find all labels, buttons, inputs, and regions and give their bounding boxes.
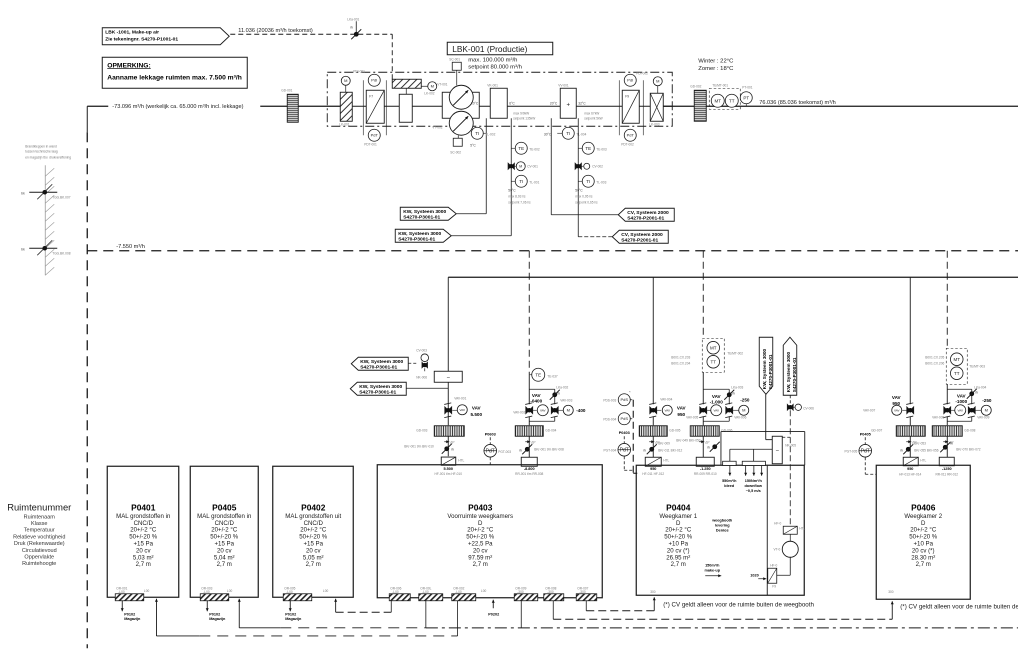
damper LKa-004 xyxy=(947,388,972,390)
damper LKa-002 xyxy=(529,388,555,390)
svg-text:M: M xyxy=(742,408,745,413)
svg-text:VAV: VAV xyxy=(892,395,902,400)
svg-text:CV-001: CV-001 xyxy=(527,164,538,168)
svg-text:TE: TE xyxy=(535,372,541,377)
booth dist box 2 xyxy=(742,461,765,465)
svg-text:Magazijn: Magazijn xyxy=(209,617,226,621)
svg-text:L00: L00 xyxy=(227,589,233,593)
outlet damper LK-003 xyxy=(650,93,663,121)
svg-text:HTL: HTL xyxy=(799,526,805,530)
svg-text:S4270-P3001-01: S4270-P3001-01 xyxy=(360,364,397,370)
svg-text:rk: rk xyxy=(557,391,560,395)
svg-text:RR-001 t/m RR-008: RR-001 t/m RR-008 xyxy=(515,472,543,476)
svg-text:TL-002: TL-002 xyxy=(485,132,495,136)
svg-text:BKr-053: BKr-053 xyxy=(914,441,926,445)
duct cooler NK-006 xyxy=(434,371,462,382)
svg-text:VK-001: VK-001 xyxy=(487,83,498,87)
svg-text:TI: TI xyxy=(519,179,523,184)
damper motor VAV-009 xyxy=(968,407,975,414)
note box OPMERKING xyxy=(102,57,247,88)
damper actuator M LK-002 xyxy=(428,82,437,91)
inlet damper LK-001 xyxy=(340,92,352,121)
svg-text:BKr-009: BKr-009 xyxy=(658,441,670,445)
svg-text:PDI-001: PDI-001 xyxy=(353,69,365,73)
svg-text:(*) CV geldt alleen voor de ru: (*) CV geldt alleen voor de ruimte buite… xyxy=(900,603,1018,610)
P0406 extract pipe xyxy=(946,384,948,404)
svg-text:rk: rk xyxy=(643,448,646,452)
svg-text:PdT: PdT xyxy=(861,449,870,455)
smoke damper BKr P0406 supply xyxy=(906,447,911,452)
svg-text:TE-002: TE-002 xyxy=(529,147,540,151)
svg-text:VV-001: VV-001 xyxy=(558,83,569,87)
svg-text:KW, Systeem 3000: KW, Systeem 3000 xyxy=(359,384,402,390)
svg-text:Denios: Denios xyxy=(716,528,729,532)
svg-text:P0403: P0403 xyxy=(468,502,493,512)
svg-text:PDS-003: PDS-003 xyxy=(603,398,616,402)
svg-text:S4270-P3001-01: S4270-P3001-01 xyxy=(403,214,440,220)
svg-text:PdS: PdS xyxy=(620,397,628,402)
svg-text:GD-004: GD-004 xyxy=(545,428,556,432)
svg-text:150Nm³/h: 150Nm³/h xyxy=(745,479,763,483)
svg-text:Zomer : 18°C: Zomer : 18°C xyxy=(698,66,734,72)
room P0405 xyxy=(190,466,258,597)
riser duct (dashed vertical) xyxy=(86,106,88,132)
room P0403 xyxy=(377,465,602,598)
svg-text:-7.550 m³/h: -7.550 m³/h xyxy=(116,244,145,250)
temp sensor TE-037 xyxy=(532,368,545,381)
flag CV systeem 2000 a xyxy=(618,208,674,221)
svg-text:LK-001: LK-001 xyxy=(339,122,350,126)
svg-text:PDI-002: PDI-002 xyxy=(636,71,648,75)
svg-text:TI: TI xyxy=(475,131,479,136)
svg-text:-73.096 m³/h (werkelijk ca. 65: -73.096 m³/h (werkelijk ca. 65.000 m³/h … xyxy=(112,104,243,110)
filter F9 xyxy=(622,90,639,123)
P0404 extract pipe xyxy=(702,372,704,404)
svg-text:Druk (Rekenwaarde): Druk (Rekenwaarde) xyxy=(14,541,65,547)
svg-text:PdS: PdS xyxy=(620,416,628,421)
KW connection lines xyxy=(456,213,486,215)
svg-text:P0102: P0102 xyxy=(124,612,135,616)
svg-text:5°C: 5°C xyxy=(470,143,476,147)
banner KW systeem 3000 vertical b xyxy=(783,337,797,395)
svg-text:VAV: VAV xyxy=(677,405,687,410)
svg-text:ΔP: ΔP xyxy=(450,440,454,444)
svg-text:setpoint 80.000 m³/h: setpoint 80.000 m³/h xyxy=(468,64,522,70)
svg-text:max 8,93 l/s: max 8,93 l/s xyxy=(508,194,526,198)
room P0401 xyxy=(107,466,179,597)
svg-text:M: M xyxy=(567,408,570,413)
duct out of AHU xyxy=(663,105,694,107)
svg-text:KW, Systeem 3000: KW, Systeem 3000 xyxy=(786,351,791,392)
svg-text:20°C: 20°C xyxy=(550,101,558,105)
svg-text:HTL: HTL xyxy=(920,458,926,462)
svg-text:300: 300 xyxy=(888,590,894,594)
temp sensor TI TL-004 xyxy=(557,132,562,134)
svg-text:VAV-002: VAV-002 xyxy=(513,410,525,414)
svg-text:HF-011 HF-012: HF-011 HF-012 xyxy=(642,472,664,476)
svg-text:PT-001: PT-001 xyxy=(742,85,753,89)
sensor group TE/MT-003 xyxy=(946,348,967,384)
svg-text:TL-003: TL-003 xyxy=(596,180,606,184)
svg-text:P0405: P0405 xyxy=(212,502,237,512)
temp sensor TI TL-003 xyxy=(578,180,582,182)
silencer GD-001 xyxy=(287,94,298,122)
filter F7 xyxy=(366,90,384,123)
svg-text:LKa-002: LKa-002 xyxy=(556,385,568,389)
svg-text:30°C: 30°C xyxy=(544,132,552,136)
svg-text:HF-001 t/m HF-010: HF-001 t/m HF-010 xyxy=(435,472,463,476)
svg-text:S4270-P3001-01: S4270-P3001-01 xyxy=(792,357,797,392)
svg-text:setpoint 0,65 l/s: setpoint 0,65 l/s xyxy=(575,200,598,204)
svg-text:rk: rk xyxy=(732,391,735,395)
silencer GD-002 xyxy=(694,90,706,121)
svg-text:KW, Systeem 3000: KW, Systeem 3000 xyxy=(762,348,767,389)
svg-text:2,7 m: 2,7 m xyxy=(136,561,151,568)
svg-text:TL-001: TL-001 xyxy=(529,180,539,184)
KW pipe left xyxy=(485,118,487,214)
return air bus (dashed) xyxy=(87,250,1018,252)
svg-text:CV-006: CV-006 xyxy=(803,406,814,410)
sensor group TE/MT-001 xyxy=(709,88,740,109)
svg-text:max. 100.000 m³/h: max. 100.000 m³/h xyxy=(468,57,517,63)
P0406 extract box xyxy=(939,457,954,466)
svg-text:VAV-007: VAV-007 xyxy=(863,408,875,412)
flag KW systeem 3000 d xyxy=(350,382,406,395)
svg-text:L00: L00 xyxy=(144,589,150,593)
svg-text:TE/MT-001: TE/MT-001 xyxy=(712,83,728,87)
svg-text:LK-002: LK-002 xyxy=(424,91,435,95)
svg-text:B001.CX.206: B001.CX.206 xyxy=(925,361,944,365)
svg-text:max 9/9kW: max 9/9kW xyxy=(513,111,529,115)
svg-text:MT: MT xyxy=(710,345,717,350)
booth dist box 1 xyxy=(723,461,737,465)
svg-text:150m³/h: 150m³/h xyxy=(705,563,720,567)
silencer GD-006 xyxy=(690,426,719,437)
svg-text:GD-007: GD-007 xyxy=(871,428,882,432)
svg-text:TT: TT xyxy=(729,98,735,103)
wall hatch xyxy=(44,165,46,275)
valve CV-006 xyxy=(789,395,791,403)
svg-text:PGT-003: PGT-003 xyxy=(498,450,511,454)
booth supply header xyxy=(730,448,772,450)
make-up air drop xyxy=(391,34,393,79)
supply trunk (solid) xyxy=(448,276,1018,278)
supply duct to right xyxy=(706,105,1018,107)
svg-text:Relatieve vochtigheid: Relatieve vochtigheid xyxy=(13,534,65,540)
svg-text:CV-003: CV-003 xyxy=(416,348,427,352)
svg-text:CV-002: CV-002 xyxy=(592,164,603,168)
svg-text:P0404: P0404 xyxy=(666,502,691,512)
svg-text:VAV-008: VAV-008 xyxy=(932,415,944,419)
svg-text:F7: F7 xyxy=(369,94,373,98)
svg-text:Zie tekeningnr. S4270-P1001-01: Zie tekeningnr. S4270-P1001-01 xyxy=(105,36,178,42)
svg-text:TE/MT-002: TE/MT-002 xyxy=(727,351,743,355)
smoke damper BKr P0406 extract xyxy=(943,445,948,450)
control valve CV-002 xyxy=(575,163,581,169)
svg-text:20°C: 20°C xyxy=(471,101,479,105)
svg-text:S4270-P2001-01: S4270-P2001-01 xyxy=(621,237,658,243)
svg-text:RR-009 RR-010: RR-009 RR-010 xyxy=(694,472,717,476)
svg-text:HTL: HTL xyxy=(663,458,669,462)
svg-text:levering: levering xyxy=(715,523,730,527)
damper actuator M LK-001 xyxy=(341,76,350,85)
room P0406 xyxy=(876,465,970,599)
svg-text:GD-005: GD-005 xyxy=(669,428,680,432)
svg-text:KW, Systeem 3000: KW, Systeem 3000 xyxy=(403,209,446,215)
svg-text:setpoint 7,06 l/s: setpoint 7,06 l/s xyxy=(508,200,531,204)
svg-text:VAV: VAV xyxy=(957,408,963,412)
P0406 extract pipe lower xyxy=(946,436,948,457)
flag KW systeem 3000 a xyxy=(400,207,456,220)
filter F7 PdT sensor xyxy=(368,129,380,141)
svg-text:P0405: P0405 xyxy=(860,432,871,436)
svg-text:BKr-001 t/m BKr-010: BKr-001 t/m BKr-010 xyxy=(404,444,434,448)
temp sensor TI TL-001 xyxy=(511,180,515,182)
damper motor VAV-006 xyxy=(726,407,733,414)
svg-text:P0202: P0202 xyxy=(488,612,499,616)
svg-text:TI: TI xyxy=(586,179,590,184)
svg-text:M: M xyxy=(985,408,988,413)
svg-text:NK-005: NK-005 xyxy=(785,443,796,447)
duct cooler NK-005 xyxy=(772,436,782,464)
svg-text:PdT: PdT xyxy=(371,133,379,138)
svg-text:VAV: VAV xyxy=(712,394,722,399)
booth heater HF-0 xyxy=(783,526,797,534)
svg-text:VAV: VAV xyxy=(894,408,900,412)
svg-text:M: M xyxy=(344,78,347,83)
fan section box xyxy=(442,92,479,118)
svg-text:P0102: P0102 xyxy=(209,612,220,616)
svg-text:Winter : 22°C: Winter : 22°C xyxy=(698,58,734,64)
svg-text:LK-003: LK-003 xyxy=(649,122,660,126)
svg-text:setpoint 135kW: setpoint 135kW xyxy=(513,116,535,120)
svg-text:BKr-001 t/m BKr-008: BKr-001 t/m BKr-008 xyxy=(534,447,564,451)
svg-text:Klasse: Klasse xyxy=(31,521,48,527)
arrow to P0102 b xyxy=(206,601,208,612)
svg-text:VAV: VAV xyxy=(957,393,967,398)
svg-text:Circulatievoud: Circulatievoud xyxy=(22,548,57,554)
filter F9 PdT sensor xyxy=(624,129,636,141)
svg-text:P0402: P0402 xyxy=(301,502,326,512)
svg-text:KW, Systeem 3000: KW, Systeem 3000 xyxy=(360,359,403,365)
silencer GD-003 xyxy=(434,426,464,437)
fire damper bk TGG.BK.007 xyxy=(29,191,57,193)
svg-text:BKr-070 BKr-072: BKr-070 BKr-072 xyxy=(956,447,980,451)
svg-text:VAV: VAV xyxy=(540,408,546,412)
svg-text:GD-008: GD-008 xyxy=(964,428,975,432)
svg-text:P0401: P0401 xyxy=(131,502,156,512)
P0403 supply pipe xyxy=(447,382,449,425)
temp sensor TE TE-002 xyxy=(511,147,515,149)
svg-text:950: 950 xyxy=(650,467,656,471)
svg-text:L00: L00 xyxy=(323,589,329,593)
svg-text:GD-001: GD-001 xyxy=(281,88,292,92)
svg-text:Magazijn: Magazijn xyxy=(124,617,141,621)
filter F7 sensing frame xyxy=(362,80,364,135)
svg-text:(*) CV geldt alleen voor de ru: (*) CV geldt alleen voor de ruimte buite… xyxy=(663,601,814,608)
svg-text:P0406: P0406 xyxy=(911,502,936,512)
booth fan VT-0 xyxy=(789,534,791,541)
svg-text:TGG.BK.007: TGG.BK.007 xyxy=(52,195,70,199)
P0404 supply box HTL xyxy=(645,457,661,466)
P0406 extract drop (dashed) xyxy=(946,251,948,349)
transfer line P0402-OR006 xyxy=(336,611,392,613)
svg-text:VT-002: VT-002 xyxy=(432,125,443,129)
flag KW systeem 3000 c xyxy=(351,357,408,370)
supply fan VT-002 xyxy=(449,111,473,135)
CV connection lines xyxy=(551,214,619,216)
svg-text:en magazijn tbv. drukvereffeni: en magazijn tbv. drukvereffening xyxy=(25,155,71,159)
svg-text:1020: 1020 xyxy=(750,573,758,577)
weegbooth wall xyxy=(766,465,768,595)
fan control SC-002 xyxy=(457,135,459,138)
mixing damper LK-002 xyxy=(392,79,421,88)
svg-text:PdT: PdT xyxy=(620,448,629,454)
AHU dash-dot enclosure xyxy=(327,72,672,126)
svg-text:HF-013 HF-014: HF-013 HF-014 xyxy=(899,472,921,476)
section rect xyxy=(399,94,412,122)
svg-text:bk: bk xyxy=(21,191,25,195)
svg-text:HF-0: HF-0 xyxy=(774,521,781,525)
svg-text:-400: -400 xyxy=(576,408,586,413)
P0406 supply drop xyxy=(909,277,911,404)
booth fan line xyxy=(789,557,791,575)
svg-text:bleed: bleed xyxy=(724,484,735,488)
silencer GD-005 xyxy=(639,426,667,437)
svg-text:max 67kW: max 67kW xyxy=(584,111,599,115)
flag KW systeem 3000 b xyxy=(395,229,451,242)
svg-text:550m³/h: 550m³/h xyxy=(722,479,737,483)
pds drop line xyxy=(632,400,634,474)
svg-text:LBK-001 (Productie): LBK-001 (Productie) xyxy=(452,44,527,54)
svg-text:PT: PT xyxy=(743,95,749,100)
svg-text:TE-037: TE-037 xyxy=(547,374,558,378)
svg-text:MT: MT xyxy=(954,357,961,362)
banner KW systeem 3000 vertical a xyxy=(759,337,773,394)
svg-text:GD-002: GD-002 xyxy=(690,84,701,88)
flag CV systeem 2000 b xyxy=(612,230,668,243)
svg-text:rk: rk xyxy=(950,441,953,445)
svg-text:OPMERKING:: OPMERKING: xyxy=(107,62,150,69)
svg-text:-0400: -0400 xyxy=(530,398,542,403)
room P0404 xyxy=(636,465,804,595)
svg-text:PDT-002: PDT-002 xyxy=(621,142,634,146)
svg-text:BKr-055 BKr-056: BKr-055 BKr-056 xyxy=(914,448,938,452)
silencer GD-004 xyxy=(515,426,543,437)
make-up air dashed duct xyxy=(230,33,392,35)
svg-text:rk: rk xyxy=(350,25,353,29)
svg-text:S4270-P2001-01: S4270-P2001-01 xyxy=(627,215,664,221)
svg-text:−: − xyxy=(446,375,450,381)
svg-text:bk: bk xyxy=(21,247,25,251)
svg-text:TE-003: TE-003 xyxy=(596,147,607,151)
svg-text:50°C: 50°C xyxy=(508,188,516,192)
P0403 extract drop (dashed) xyxy=(528,251,530,375)
svg-text:TGG.BK.008: TGG.BK.008 xyxy=(52,251,70,255)
svg-text:weegbooth: weegbooth xyxy=(711,518,733,522)
AHU title box LBK-001 xyxy=(447,42,553,55)
P0403 extract box xyxy=(521,457,537,466)
svg-text:VAV-006: VAV-006 xyxy=(734,415,746,419)
svg-text:VAV-004: VAV-004 xyxy=(660,397,672,401)
svg-text:rk: rk xyxy=(900,448,903,452)
svg-text:Aanname lekkage ruimten max. 7: Aanname lekkage ruimten max. 7.500 m³/h xyxy=(107,74,242,81)
svg-text:32°C: 32°C xyxy=(578,101,586,105)
svg-text:KW, Systeem 3000: KW, Systeem 3000 xyxy=(398,231,441,237)
CV pipe right with valve xyxy=(577,118,579,237)
svg-text:~0,5 m/s: ~0,5 m/s xyxy=(746,489,761,493)
filter F7 dP sensor PDI-001 xyxy=(368,74,380,86)
supply fan VT-001 xyxy=(449,85,473,109)
P0404 extract drop (dashed) xyxy=(702,251,704,339)
flag: LBK-1001 make-up air reference xyxy=(102,28,229,45)
svg-text:LBK -1001, Make-up air: LBK -1001, Make-up air xyxy=(105,29,159,35)
damper motor VAV-003 xyxy=(551,407,558,414)
transfer line P0401-OR002 xyxy=(156,635,199,637)
svg-text:6°C: 6°C xyxy=(509,101,515,105)
svg-text:VT-0: VT-0 xyxy=(774,547,781,551)
transfer line OR007-P0404 xyxy=(586,610,654,612)
svg-text:Ruimtehoogte: Ruimtehoogte xyxy=(22,561,56,567)
svg-text:VAV-001: VAV-001 xyxy=(454,396,466,400)
svg-text:B001.CX.204: B001.CX.204 xyxy=(671,361,690,365)
svg-text:P0603: P0603 xyxy=(485,432,496,436)
fire damper bk TGG.BK.008 xyxy=(29,247,57,249)
room P0402 xyxy=(273,466,354,597)
svg-text:VAV: VAV xyxy=(459,408,465,412)
svg-text:make-up: make-up xyxy=(704,568,720,572)
svg-text:2,7 m: 2,7 m xyxy=(306,561,321,568)
booth filter xyxy=(768,568,777,583)
svg-text:S4270-P3001-01: S4270-P3001-01 xyxy=(768,354,773,389)
svg-text:-250: -250 xyxy=(982,398,992,403)
CV pipe left xyxy=(550,118,552,215)
P0406 extract join xyxy=(971,417,973,422)
svg-text:-250: -250 xyxy=(740,397,750,402)
KW flag connection xyxy=(406,387,448,389)
pressure switch PDS-004 xyxy=(618,413,630,425)
svg-text:S4270-P3001-01: S4270-P3001-01 xyxy=(398,236,435,242)
svg-text:LKa-004: LKa-004 xyxy=(974,385,986,389)
svg-text:TT: TT xyxy=(711,359,717,364)
arrow to P0102 c xyxy=(289,601,291,612)
svg-text:tussen technische laag: tussen technische laag xyxy=(25,149,58,153)
svg-text:VAV: VAV xyxy=(664,408,670,412)
svg-text:P0403: P0403 xyxy=(619,431,630,435)
svg-text:-1.250: -1.250 xyxy=(700,467,711,471)
transfer line P0405-OR00L xyxy=(239,627,280,629)
fan control SC-001 xyxy=(452,62,461,70)
svg-text:TT: TT xyxy=(954,371,960,376)
KW pipe right with valve xyxy=(510,118,512,236)
silencer GD-008 xyxy=(932,426,962,437)
svg-text:2,7 m: 2,7 m xyxy=(217,561,232,568)
filter F9 sensing frame xyxy=(618,80,620,135)
svg-text:PdT: PdT xyxy=(627,133,635,138)
svg-text:P0102: P0102 xyxy=(285,612,296,616)
P0403 extract pipe xyxy=(528,374,530,404)
pressure switch PDS-003 xyxy=(618,394,630,406)
pressure sensor PT-001 xyxy=(740,92,752,104)
transfer line OR008-P0406 xyxy=(553,618,892,620)
svg-text:CV, Systeem 2000: CV, Systeem 2000 xyxy=(627,210,669,216)
svg-text:76.036 (85.036 toekomst) m³/h: 76.036 (85.036 toekomst) m³/h xyxy=(759,100,836,106)
svg-text:-8.800: -8.800 xyxy=(524,467,535,471)
svg-text:M: M xyxy=(656,79,659,84)
P0404 extract box xyxy=(696,457,714,466)
svg-text:B001.CX.203: B001.CX.203 xyxy=(671,355,690,359)
svg-text:VAV-009: VAV-009 xyxy=(977,415,989,419)
